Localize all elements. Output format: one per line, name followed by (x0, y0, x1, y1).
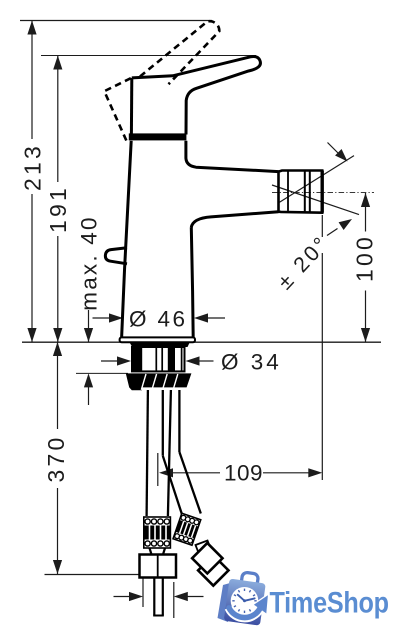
dimension 109 right arrowhead (263, 472, 309, 474)
dimension 191 vertical line (57, 56, 59, 343)
rod width extension ticks (143, 576, 174, 619)
svg-text:370: 370 (43, 435, 69, 483)
swivel lower leader and arrowhead (327, 229, 338, 236)
dimension D34 right arrow (186, 356, 200, 365)
raised handle pivot edges (dashed) (104, 78, 131, 141)
dimension 109 extension line from spout tip (321, 215, 323, 480)
swivel range line upper (280, 156, 355, 203)
dimension D34 left arrow (101, 360, 118, 362)
dimension 191 up arrowhead (53, 56, 62, 70)
vertical hose braided coupling (144, 517, 171, 548)
lock nut block (140, 555, 177, 578)
dimension max. 40 down arrowhead (84, 328, 93, 342)
angled hose tube (163, 456, 183, 518)
dimension 213 up arrowhead (27, 21, 36, 35)
TimeShop logo: swoosh arrow (229, 607, 261, 618)
swivel upper leader and arrowhead (328, 143, 340, 155)
angled hose end nut (192, 543, 228, 586)
horseshoe fixing washer (126, 373, 192, 390)
dimension 191 down arrowhead (53, 328, 62, 342)
svg-text:109: 109 (224, 461, 263, 486)
supply pipes below washer (147, 390, 148, 516)
dimension 191 extension line (41, 55, 256, 57)
dimension 370 up arrowhead (under deck) (53, 342, 62, 356)
dimension max. 40 up arrowhead with tail (84, 373, 93, 387)
dimension 109 left arrowhead (159, 468, 173, 477)
faucet body cone (122, 141, 132, 338)
dimension 370 down arrowhead (53, 560, 62, 574)
svg-text:191: 191 (45, 185, 71, 233)
svg-text:Ø 34: Ø 34 (221, 350, 282, 375)
TimeShop logo: main bag (224, 570, 267, 625)
mounting deck line (22, 341, 381, 343)
swivel range line lower (272, 185, 359, 215)
rod width right arrow (174, 592, 188, 601)
cartridge left edge (130, 78, 133, 135)
raised handle (dashed) (140, 21, 219, 84)
svg-text:max. 40: max. 40 (77, 215, 102, 310)
dimension 213 down arrowhead (27, 328, 36, 342)
dimension 100 vertical line (365, 193, 367, 342)
lever handle (rest position) (132, 56, 261, 134)
base plate (120, 337, 195, 342)
hose neck (150, 548, 166, 555)
aerator right edge (heavy) (321, 171, 324, 213)
angled hose braided coupling (173, 513, 201, 545)
threaded rod (154, 578, 163, 616)
dimension max. 40 upper line (88, 310, 90, 342)
svg-text:Ø 46: Ø 46 (129, 307, 187, 332)
bottom reference line (45, 574, 142, 576)
aerator outline (279, 171, 323, 213)
dimension 109 tick at hose (157, 453, 159, 486)
dimension D46 left arrow (93, 317, 111, 319)
shank flange under deck (130, 343, 190, 347)
dimension 100 up arrowhead (361, 193, 370, 207)
svg-text:TimeShop: TimeShop (270, 585, 389, 619)
spout (186, 141, 279, 172)
spout centerline (272, 192, 374, 194)
dimension 213 vertical line (31, 21, 33, 343)
dimension 213 extension line (top) (20, 20, 212, 22)
threaded shank (132, 347, 185, 371)
angled hose neck (196, 541, 212, 555)
aerator inner lines (287, 171, 289, 212)
dimension D46 right arrow (194, 313, 208, 322)
rod width left arrow (114, 596, 131, 598)
dimension 100 down arrowhead (361, 328, 370, 342)
side knob (105, 248, 127, 264)
svg-text:213: 213 (20, 143, 46, 191)
svg-text:100: 100 (352, 234, 378, 282)
counter underside extension line (76, 372, 128, 374)
TimeShop logo: back bag (218, 582, 234, 622)
TimeShop logo: clock face (231, 587, 259, 615)
cartridge joint thick bar (129, 133, 187, 140)
dimension 370 vertical line (57, 342, 59, 574)
